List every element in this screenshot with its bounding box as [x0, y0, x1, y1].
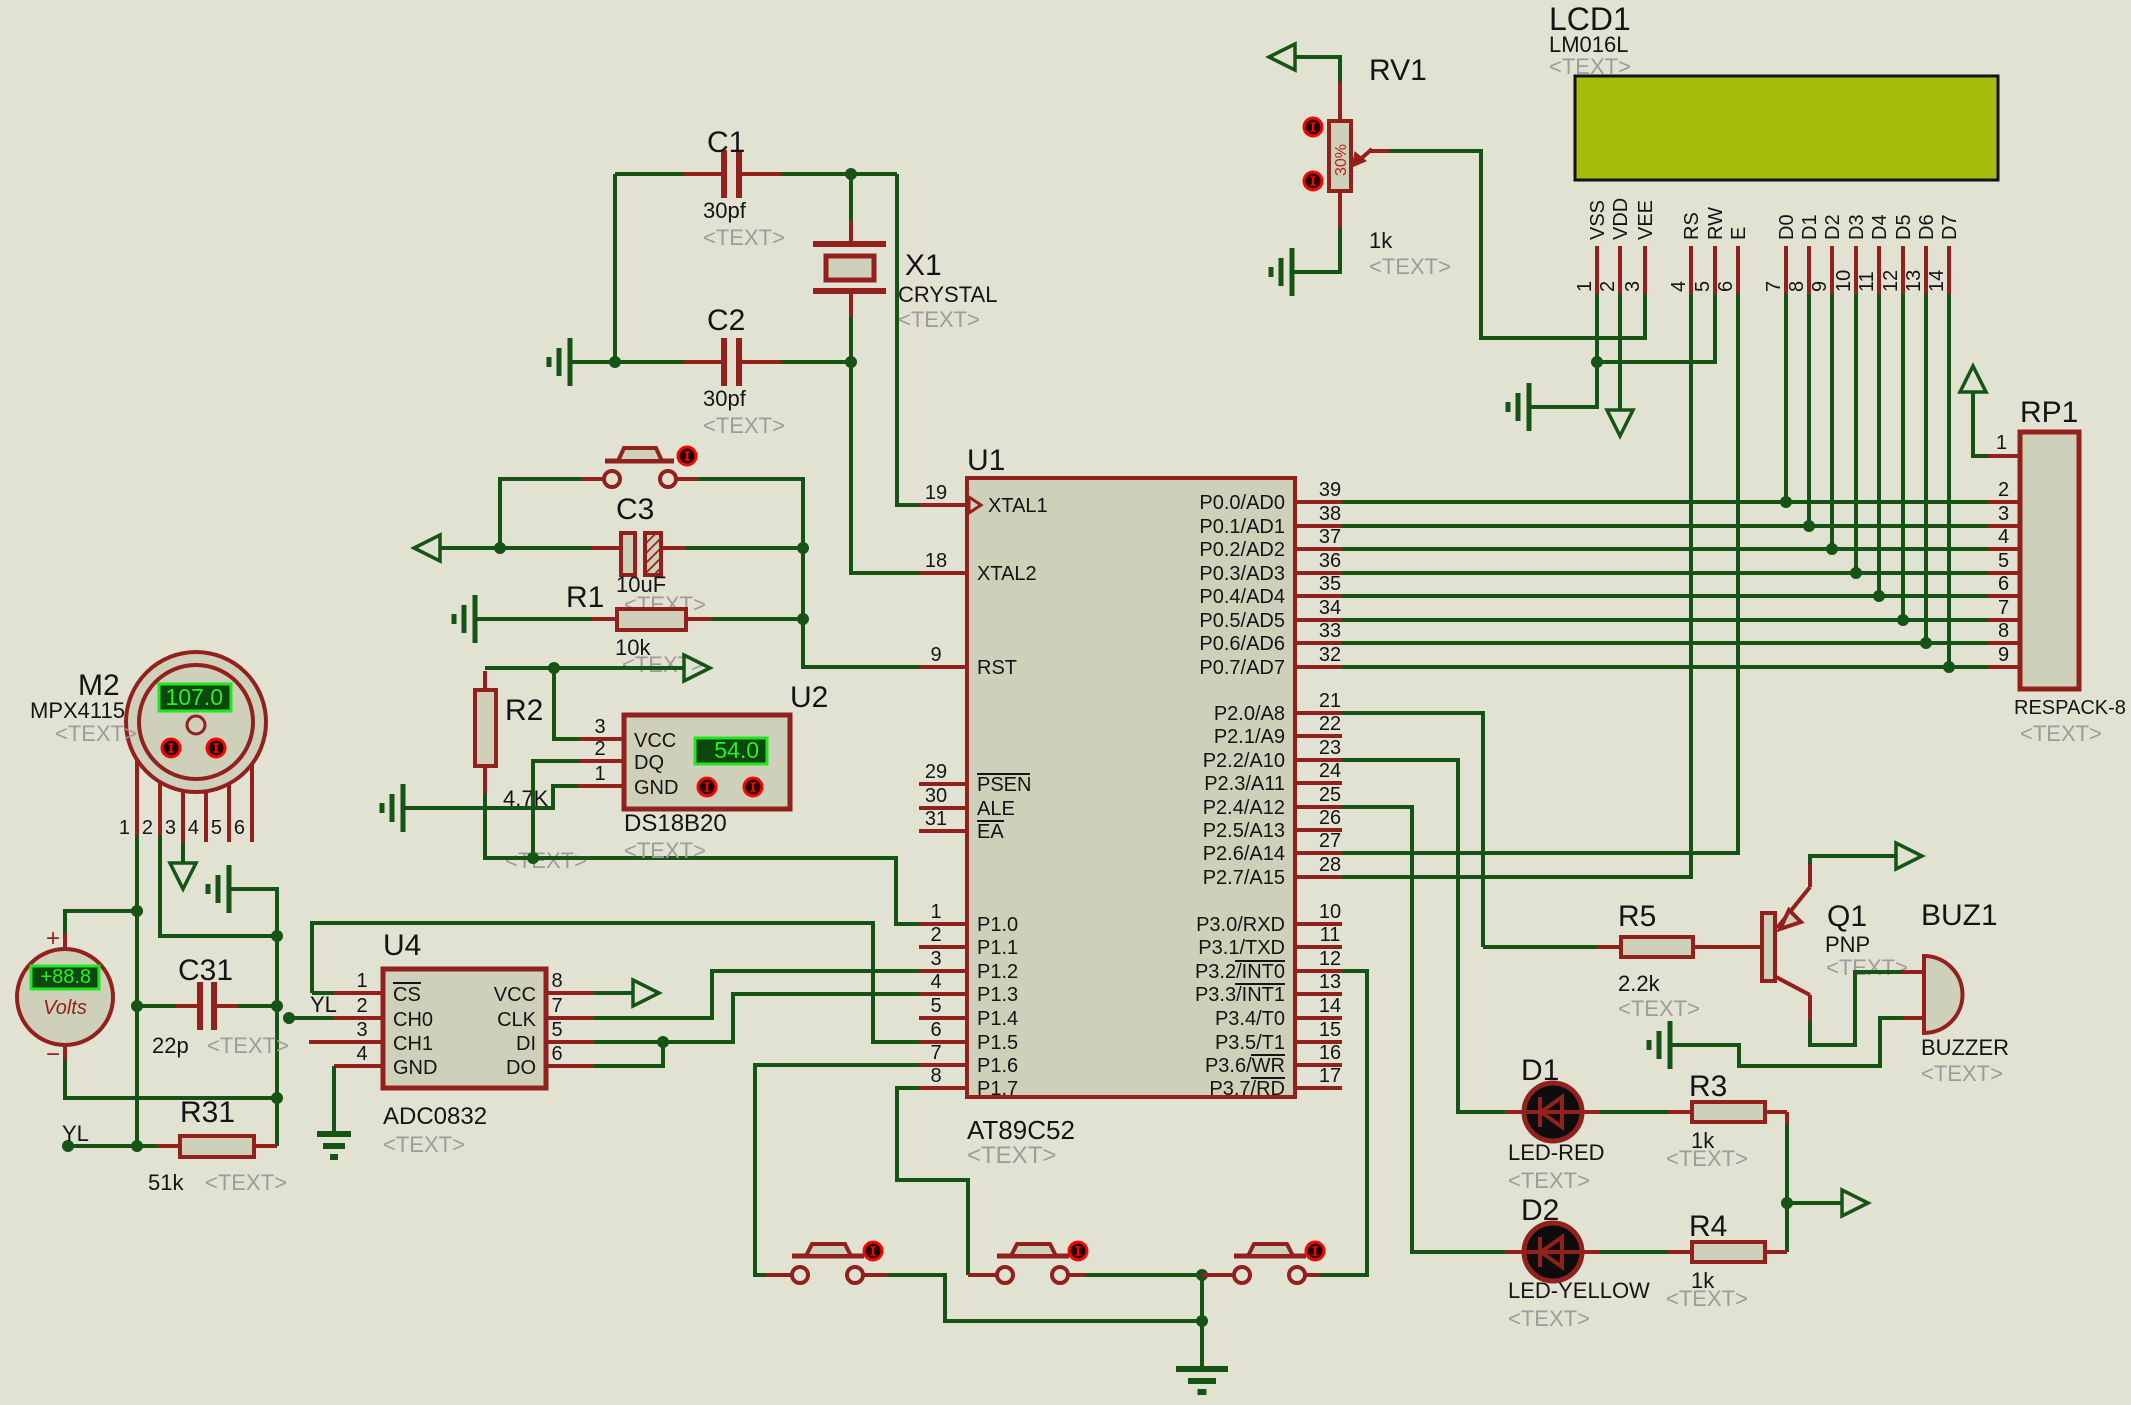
push button B2	[997, 1254, 1069, 1259]
svg-text:D5: D5	[1893, 214, 1915, 240]
LCD pin 4 RS	[1689, 246, 1693, 294]
svg-text:8: 8	[1786, 281, 1808, 292]
svg-text:4: 4	[1998, 526, 2009, 548]
svg-text:P2.5/A13: P2.5/A13	[1203, 820, 1285, 842]
U1 pin 17 P3.7/RD stub	[1295, 1086, 1342, 1090]
U1 pin 11 P3.1/TXD stub	[1295, 945, 1342, 949]
svg-text:<TEXT>: <TEXT>	[1508, 1168, 1590, 1193]
svg-text:+: +	[46, 925, 60, 952]
RV1 wiper to VEE	[1356, 149, 1372, 163]
svg-text:38: 38	[1319, 503, 1341, 525]
wire U2 VCC net	[554, 668, 579, 739]
wire D4 down	[1877, 294, 1881, 596]
resistor R31 51k	[137, 1144, 157, 1148]
svg-text:LED-RED: LED-RED	[1508, 1140, 1605, 1165]
U1 pin 16 P3.6/WR stub	[1295, 1063, 1342, 1067]
U1 pin 25 P2.4/A12 stub	[1295, 805, 1342, 809]
svg-text:2: 2	[594, 738, 605, 760]
svg-text:P0.4/AD4: P0.4/AD4	[1199, 586, 1285, 608]
svg-text:18: 18	[925, 550, 947, 572]
resistor R5 2.2k	[1483, 945, 1597, 949]
lcd LCD1 LM016L screen	[1575, 76, 1998, 180]
svg-text:R3: R3	[1689, 1070, 1727, 1103]
pot RV1 1k body	[1329, 121, 1351, 191]
svg-text:R5: R5	[1618, 900, 1656, 933]
wire E to P2.6	[1342, 294, 1738, 853]
RP1 pin 1 power arrow	[1988, 454, 2020, 458]
RP1 pin 5 stub	[1988, 571, 2020, 575]
junction C2-X1	[845, 356, 857, 368]
crystal X1	[849, 174, 853, 221]
U1 pin 37 P0.2/AD2 stub	[1295, 547, 1342, 551]
svg-text:DI: DI	[516, 1033, 536, 1055]
svg-text:C2: C2	[707, 304, 745, 337]
svg-text:22: 22	[1319, 713, 1341, 735]
svg-text:GND: GND	[393, 1057, 437, 1079]
wire common to ground	[1200, 1275, 1204, 1366]
svg-text:P1.7: P1.7	[977, 1078, 1018, 1100]
wire button3 right to P3.2	[1305, 1273, 1320, 1277]
svg-text:7: 7	[930, 1042, 941, 1064]
wire Q1 emitter pointer	[1810, 856, 1896, 864]
U1 pin 31 EA stub	[919, 829, 967, 833]
svg-text:<TEXT>: <TEXT>	[622, 652, 704, 677]
svg-text:<TEXT>: <TEXT>	[1921, 1061, 2003, 1086]
junction D1	[1803, 520, 1815, 532]
ground below RV1	[1290, 248, 1295, 296]
svg-text:CRYSTAL: CRYSTAL	[898, 282, 997, 307]
U1 pin 19 XTAL1 stub	[919, 503, 967, 507]
sensor M2 MPX4115	[126, 652, 266, 792]
svg-text:51k: 51k	[148, 1170, 184, 1195]
svg-text:PNP: PNP	[1825, 932, 1870, 957]
svg-text:<TEXT>: <TEXT>	[55, 721, 137, 746]
svg-text:D7: D7	[1939, 214, 1961, 240]
svg-text:1: 1	[1574, 281, 1596, 292]
U1 pin 27 P2.6/A14 stub	[1295, 851, 1342, 855]
wire D0 down	[1784, 294, 1788, 502]
mcu U1 AT89C52 body	[967, 478, 1295, 1097]
svg-text:P3.4/T0: P3.4/T0	[1215, 1008, 1285, 1030]
junction D4	[1873, 590, 1885, 602]
svg-text:P2.2/A10: P2.2/A10	[1203, 750, 1285, 772]
wire R3 down to node	[1785, 1112, 1789, 1124]
wire left vertical C1-C2	[613, 174, 617, 362]
svg-text:D2: D2	[1521, 1194, 1559, 1227]
svg-text:26: 26	[1319, 807, 1341, 829]
svg-text:+88.8: +88.8	[40, 966, 91, 988]
ground near M2	[227, 865, 232, 913]
junction D3	[1850, 567, 1862, 579]
junction DI-DO	[657, 1036, 669, 1048]
svg-text:5: 5	[1692, 281, 1714, 292]
transistor Q1 PNP	[1762, 913, 1775, 981]
svg-text:6: 6	[234, 817, 245, 839]
U1 pin 1 P1.0 stub	[919, 922, 967, 926]
wire right vertical C31-R31	[275, 936, 279, 1146]
svg-text:2.2k: 2.2k	[1618, 971, 1661, 996]
U1 pin 24 P2.3/A11 stub	[1295, 781, 1342, 785]
svg-text:XTAL2: XTAL2	[977, 563, 1037, 585]
wire P0.7 to RP1 pin 9	[1342, 665, 1988, 669]
led D2 LED-YELLOW	[1524, 1223, 1582, 1281]
svg-text:3: 3	[930, 948, 941, 970]
node YL at CH0	[283, 1012, 295, 1024]
wire M2 pin1 vertical YL net	[135, 835, 139, 1146]
junction D0	[1780, 496, 1792, 508]
svg-text:U2: U2	[790, 681, 828, 714]
svg-text:VCC: VCC	[494, 984, 536, 1006]
svg-text:28: 28	[1319, 854, 1341, 876]
svg-text:14: 14	[1319, 995, 1341, 1017]
adc U4 ADC0832 body	[383, 969, 546, 1088]
svg-text:1: 1	[1996, 432, 2007, 454]
svg-text:22p: 22p	[152, 1033, 189, 1058]
wire RS to P2.7	[1342, 294, 1691, 877]
push button B3	[1202, 1273, 1234, 1277]
RP1 pin 7 stub	[1988, 618, 2020, 622]
wire U4 GND	[334, 1064, 383, 1068]
svg-text:P3.1/TXD: P3.1/TXD	[1198, 937, 1285, 959]
svg-text:LED-YELLOW: LED-YELLOW	[1508, 1278, 1650, 1303]
svg-text:<TEXT>: <TEXT>	[898, 307, 980, 332]
LCD pin 5 RW	[1713, 246, 1717, 294]
svg-text:P2.4/A12: P2.4/A12	[1203, 797, 1285, 819]
svg-text:P0.1/AD1: P0.1/AD1	[1199, 516, 1285, 538]
junction M2 pin1 plus	[131, 905, 143, 917]
svg-text:EA: EA	[977, 821, 1004, 843]
U1 pin 7 P1.6 stub	[919, 1063, 967, 1067]
wire D1 down	[1807, 294, 1811, 526]
svg-text:<TEXT>: <TEXT>	[383, 1132, 465, 1157]
wire reset button left	[581, 477, 604, 481]
svg-text:RV1: RV1	[1369, 54, 1427, 87]
wire P0.1 to RP1 pin 3	[1342, 524, 1988, 528]
RV1 top lead / pointer left	[1338, 82, 1342, 121]
svg-text:R31: R31	[180, 1096, 235, 1129]
U1 pin 32 P0.7/AD7 stub	[1295, 665, 1342, 669]
LCD pin 2 VDD	[1618, 246, 1622, 294]
svg-text:3: 3	[356, 1019, 367, 1041]
svg-text:<TEXT>: <TEXT>	[1826, 955, 1908, 980]
svg-text:10: 10	[1319, 901, 1341, 923]
wire U4 CS to P1.5	[334, 991, 383, 995]
svg-text:<TEXT>: <TEXT>	[205, 1170, 287, 1195]
svg-text:33: 33	[1319, 620, 1341, 642]
wire XTAL2 net	[851, 362, 920, 573]
RP1 pin 4 stub	[1988, 547, 2020, 551]
wire U4 CLK to P1.2	[546, 1016, 594, 1020]
svg-text:CLK: CLK	[497, 1009, 537, 1031]
U1 pin 23 P2.2/A10 stub	[1295, 758, 1342, 762]
wire D5 down	[1901, 294, 1905, 620]
svg-text:P3.6/WR: P3.6/WR	[1205, 1055, 1285, 1077]
svg-text:<TEXT>: <TEXT>	[1369, 254, 1451, 279]
U1 pin 28 P2.7/A15 stub	[1295, 875, 1342, 879]
svg-text:C1: C1	[707, 126, 745, 159]
svg-text:P2.0/A8: P2.0/A8	[1214, 703, 1285, 725]
svg-text:D0: D0	[1776, 214, 1798, 240]
junction D6	[1920, 637, 1932, 649]
svg-text:25: 25	[1319, 784, 1341, 806]
ground below U4	[317, 1131, 351, 1137]
svg-text:X1: X1	[905, 249, 942, 282]
wire RW join VSS	[1597, 294, 1715, 362]
wire P0.0 to RP1 pin 2	[1342, 500, 1988, 504]
svg-text:P2.3/A11: P2.3/A11	[1204, 773, 1285, 795]
wire P0.3 to RP1 pin 5	[1342, 571, 1988, 575]
junction C2 left	[609, 356, 621, 368]
wire P0.2 to RP1 pin 4	[1342, 547, 1988, 551]
junction reset-C3 left	[494, 542, 506, 554]
junction D7	[1943, 661, 1955, 673]
U1 pin 14 P3.4/T0 stub	[1295, 1016, 1342, 1020]
junction R3-R4 output	[1781, 1197, 1793, 1209]
svg-text:6: 6	[1998, 573, 2009, 595]
LCD pin 1 VSS	[1595, 246, 1599, 294]
svg-text:1: 1	[594, 763, 605, 785]
junction C3 right	[797, 542, 809, 554]
svg-text:BUZZER: BUZZER	[1921, 1035, 2009, 1060]
svg-text:BUZ1: BUZ1	[1921, 899, 1998, 932]
U1 pin 34 P0.5/AD5 stub	[1295, 618, 1342, 622]
led D1 LED-RED	[1524, 1083, 1582, 1141]
svg-text:8: 8	[930, 1065, 941, 1087]
svg-text:P1.5: P1.5	[977, 1032, 1018, 1054]
LCD pin 12 D5	[1901, 246, 1905, 294]
ground near U2	[401, 784, 406, 832]
svg-text:<TEXT>: <TEXT>	[1666, 1286, 1748, 1311]
svg-text:Q1: Q1	[1827, 900, 1867, 933]
svg-text:P0.6/AD6: P0.6/AD6	[1199, 633, 1285, 655]
svg-text:GND: GND	[634, 777, 678, 799]
svg-text:9: 9	[1809, 281, 1831, 292]
wire U4 VCC pointer	[546, 991, 594, 995]
push button B1	[792, 1254, 864, 1259]
junction voltmeter minus	[271, 1092, 283, 1104]
svg-text:6: 6	[1715, 281, 1737, 292]
svg-text:24: 24	[1319, 760, 1341, 782]
svg-text:PSEN: PSEN	[977, 774, 1031, 796]
svg-text:12: 12	[1880, 270, 1902, 292]
svg-text:<TEXT>: <TEXT>	[505, 848, 587, 873]
junction VSS-RW	[1591, 356, 1603, 368]
svg-text:P1.1: P1.1	[977, 937, 1018, 959]
wire reset button right	[676, 477, 698, 481]
svg-text:1k: 1k	[1369, 228, 1393, 253]
junction R31 left	[131, 1140, 143, 1152]
wire VSS down to ground	[1531, 362, 1597, 407]
svg-text:P0.2/AD2: P0.2/AD2	[1199, 539, 1285, 561]
svg-text:DS18B20: DS18B20	[624, 810, 727, 837]
svg-text:YL: YL	[62, 1121, 89, 1146]
junction C31 left	[131, 1000, 143, 1012]
node YL left	[62, 1140, 74, 1152]
svg-text:3: 3	[1998, 503, 2009, 525]
resistor R3 1k	[1582, 1110, 1599, 1114]
svg-text:4: 4	[188, 817, 199, 839]
svg-text:E: E	[1728, 227, 1750, 240]
svg-text:Volts: Volts	[43, 997, 87, 1019]
svg-text:<TEXT>: <TEXT>	[2020, 721, 2102, 746]
svg-text:16: 16	[1319, 1042, 1341, 1064]
wire P1.7 to button2	[897, 1088, 968, 1275]
svg-text:RP1: RP1	[2020, 396, 2078, 429]
svg-text:P3.2/INT0: P3.2/INT0	[1195, 961, 1285, 983]
wire U4 DO	[546, 1064, 594, 1068]
junction D5	[1897, 614, 1909, 626]
junction gnd net	[271, 930, 283, 942]
svg-text:C3: C3	[616, 493, 654, 526]
wire voltmeter minus	[65, 1060, 277, 1098]
svg-text:5: 5	[1998, 550, 2009, 572]
svg-text:RESPACK-8: RESPACK-8	[2014, 697, 2126, 719]
ground near C2	[568, 338, 573, 386]
svg-text:YL: YL	[310, 992, 337, 1017]
svg-text:17: 17	[1319, 1065, 1341, 1087]
svg-text:30: 30	[925, 785, 947, 807]
wire XTAL1 net	[897, 174, 920, 505]
RP1 pin 3 stub	[1988, 524, 2020, 528]
svg-text:<TEXT>: <TEXT>	[207, 1033, 289, 1058]
svg-text:19: 19	[925, 482, 947, 504]
U4 CH1 stub	[309, 1040, 383, 1044]
LCD pin 10 D3	[1854, 246, 1858, 294]
svg-text:14: 14	[1926, 270, 1948, 292]
svg-text:21: 21	[1319, 690, 1341, 712]
svg-text:3: 3	[1622, 281, 1644, 292]
svg-text:D1: D1	[1521, 1054, 1559, 1087]
wire P0.5 to RP1 pin 7	[1342, 618, 1988, 622]
svg-text:CH0: CH0	[393, 1009, 433, 1031]
svg-text:6: 6	[930, 1019, 941, 1041]
svg-text:MPX4115: MPX4115	[30, 698, 125, 723]
svg-text:P3.7/RD: P3.7/RD	[1209, 1078, 1285, 1100]
M2 legs	[135, 760, 139, 842]
capacitor C31 22p	[137, 1004, 176, 1008]
svg-text:RW: RW	[1705, 207, 1727, 240]
svg-text:R4: R4	[1689, 1210, 1727, 1243]
U1 pin 13 P3.3/INT1 stub	[1295, 992, 1342, 996]
U1 pin 38 P0.1/AD1 stub	[1295, 524, 1342, 528]
RP1 pin 2 stub	[1988, 500, 2020, 504]
svg-text:3: 3	[594, 716, 605, 738]
svg-text:DQ: DQ	[634, 752, 664, 774]
svg-text:R1: R1	[566, 581, 604, 614]
svg-text:1: 1	[119, 817, 130, 839]
svg-text:U1: U1	[967, 444, 1005, 477]
svg-text:11: 11	[1320, 924, 1341, 946]
wire C1 to XTAL1 corner	[851, 172, 897, 176]
RP1 pin 8 stub	[1988, 641, 2020, 645]
svg-text:12: 12	[1319, 948, 1341, 970]
svg-text:VCC: VCC	[634, 730, 676, 752]
LCD pin 9 D2	[1830, 246, 1834, 294]
wire VEE from RV1	[1643, 294, 1647, 338]
U1 pin 29 PSEN stub	[919, 782, 967, 786]
resistor R4 1k	[1582, 1250, 1599, 1254]
wire P0.6 to RP1 pin 8	[1342, 641, 1988, 645]
U1 pin 4 P1.3 stub	[919, 992, 967, 996]
svg-text:<TEXT>: <TEXT>	[703, 413, 785, 438]
junction C31 right	[271, 1000, 283, 1012]
svg-text:P1.2: P1.2	[977, 961, 1018, 983]
svg-text:54.0: 54.0	[714, 737, 759, 763]
buzzer BUZ1	[1924, 956, 1963, 1033]
ground at buttons	[1176, 1366, 1228, 1372]
U1 pin 22 P2.1/A9 stub	[1295, 734, 1342, 738]
wire voltmeter plus	[65, 911, 137, 933]
svg-text:VEE: VEE	[1635, 200, 1657, 240]
svg-text:P2.6/A14: P2.6/A14	[1203, 843, 1285, 865]
svg-text:D2: D2	[1822, 214, 1844, 240]
wire VDD power down arrow	[1618, 294, 1622, 410]
svg-text:7: 7	[1998, 597, 2009, 619]
U1 pin 35 P0.4/AD4 stub	[1295, 594, 1342, 598]
ground at LCD	[1527, 383, 1532, 431]
svg-text:P0.3/AD3: P0.3/AD3	[1199, 563, 1285, 585]
LCD pin 7 D0	[1784, 246, 1788, 294]
LCD pin 6 E	[1736, 246, 1740, 294]
svg-text:P1.0: P1.0	[977, 914, 1018, 936]
svg-text:R2: R2	[505, 694, 543, 727]
svg-text:U4: U4	[383, 929, 421, 962]
svg-text:30pf: 30pf	[703, 386, 747, 411]
svg-text:ADC0832: ADC0832	[383, 1103, 487, 1130]
svg-text:VDD: VDD	[1610, 198, 1632, 240]
power arrow down at M2 pin3	[181, 842, 185, 863]
svg-text:P3.5/T1: P3.5/T1	[1215, 1032, 1285, 1054]
wire U4 CH0	[289, 1016, 334, 1020]
svg-text:7: 7	[551, 995, 562, 1017]
svg-text:1: 1	[930, 901, 941, 923]
junction R1 right	[797, 613, 809, 625]
svg-text:<TEXT>: <TEXT>	[703, 225, 785, 250]
svg-text:8: 8	[551, 970, 562, 992]
svg-text:P1.6: P1.6	[977, 1055, 1018, 1077]
wire R2 bottom to P1.0	[483, 766, 487, 793]
wire R2 top / VCC pointer	[485, 666, 684, 670]
wire D6 down	[1924, 294, 1928, 643]
wire P2.2 to D1	[1342, 760, 1505, 1112]
svg-text:RST: RST	[977, 657, 1017, 679]
U1 pin 15 P3.5/T1 stub	[1295, 1040, 1342, 1044]
pointer arrow left of C3	[440, 546, 500, 550]
svg-text:5: 5	[211, 817, 222, 839]
sensor U2 DS18B20 body	[624, 715, 790, 809]
svg-text:29: 29	[925, 761, 947, 783]
svg-text:2: 2	[1998, 479, 2009, 501]
capacitor C2	[615, 360, 684, 364]
svg-text:34: 34	[1319, 597, 1341, 619]
svg-text:P0.5/AD5: P0.5/AD5	[1199, 610, 1285, 632]
svg-text:5: 5	[551, 1019, 562, 1041]
svg-text:CH1: CH1	[393, 1033, 433, 1055]
U1 pin 39 P0.0/AD0 stub	[1295, 500, 1342, 504]
wire button1 right to gnd bus	[863, 1273, 887, 1277]
LCD pin 8 D1	[1807, 246, 1811, 294]
svg-text:36: 36	[1319, 550, 1341, 572]
junction D2	[1826, 543, 1838, 555]
junction DQ net	[527, 852, 539, 864]
ground near buzzer	[1668, 1021, 1673, 1069]
output pointer right	[1787, 1201, 1842, 1205]
RP1 pin 6 stub	[1988, 594, 2020, 598]
wire U2 GND net	[405, 786, 578, 808]
U1 pin 2 P1.1 stub	[919, 945, 967, 949]
svg-text:P3.3/INT1: P3.3/INT1	[1195, 984, 1285, 1006]
svg-text:107.0: 107.0	[165, 684, 223, 710]
